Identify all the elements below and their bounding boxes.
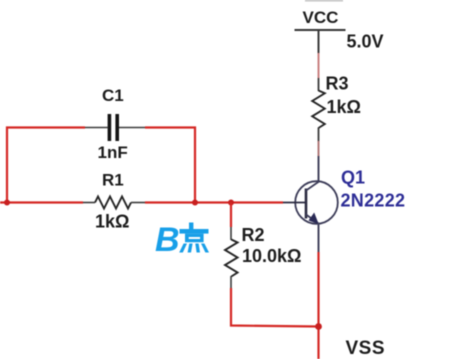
wire bottom rail to Q1 base (red)	[145, 201, 283, 203]
wire collector lead (navy)	[318, 156, 320, 182]
svg-text:VSS: VSS	[346, 338, 386, 359]
junction dot left	[4, 200, 10, 206]
wire bottom rail left (red)	[0, 201, 83, 203]
svg-text:R3: R3	[326, 74, 349, 94]
wire capacitor left lead	[85, 127, 108, 129]
wire R3 to Q1 collector (faded red)	[318, 141, 320, 156]
svg-text:10.0kΩ: 10.0kΩ	[242, 246, 301, 266]
wire emitter to VSS (red)	[317, 252, 319, 359]
R1 value label 1kΩ	[95, 212, 129, 232]
R2 reference label	[242, 225, 265, 245]
capacitor C1	[108, 114, 119, 141]
transistor Q1	[282, 181, 338, 224]
wire R1 right lead	[131, 202, 145, 204]
wire R2 top lead	[230, 227, 232, 240]
wire R1 left lead	[83, 202, 95, 204]
VCC value label 5.0V	[347, 32, 384, 52]
node B (B点)	[155, 221, 209, 259]
wire emitter lead (navy)	[318, 223, 320, 252]
C1 value label 1nF	[98, 143, 128, 162]
svg-text:Q1: Q1	[341, 168, 365, 188]
svg-text:5.0V: 5.0V	[347, 32, 384, 52]
svg-text:VCC: VCC	[303, 8, 339, 27]
svg-text:B: B	[155, 221, 180, 259]
junction dot VSS rail	[315, 323, 322, 330]
svg-text:1nF: 1nF	[98, 143, 128, 162]
wire top loop: right segment (red)	[145, 128, 195, 203]
R2 value label 10.0kΩ	[242, 246, 301, 266]
svg-text:R1: R1	[102, 171, 124, 190]
junction dot loop right	[192, 200, 198, 206]
wire VCC stem (dark)	[318, 30, 320, 53]
C1 reference label	[102, 86, 124, 105]
wire R2 bottom lead	[230, 276, 232, 288]
svg-text:2N2222: 2N2222	[341, 191, 406, 211]
power VCC	[295, 8, 346, 30]
resistor R3	[312, 91, 325, 129]
svg-text:1kΩ: 1kΩ	[95, 212, 129, 232]
svg-text:1kΩ: 1kΩ	[327, 97, 361, 117]
cropped text streak at top edge	[305, 0, 343, 1]
svg-text:R2: R2	[242, 225, 265, 245]
wire VCC to R3 (faded red)	[318, 53, 320, 78]
Q1 reference label	[341, 168, 365, 188]
svg-text:C1: C1	[102, 86, 124, 105]
wire top loop: left segment (red)	[7, 128, 85, 203]
R3 reference label	[326, 74, 349, 94]
wire R2 bottom to VSS rail (red)	[231, 288, 319, 327]
R1 reference label	[102, 171, 124, 190]
resistor R2	[225, 240, 238, 277]
wire capacitor right lead	[119, 127, 145, 129]
wire R3 bottom lead	[318, 128, 320, 142]
wire R3 top lead	[318, 78, 320, 91]
junction dot R2 tap	[228, 200, 234, 206]
resistor R1	[95, 197, 131, 209]
Q1 value label 2N2222	[341, 191, 406, 211]
power VSS label	[346, 338, 386, 359]
wire R2 top (red)	[230, 203, 232, 228]
R3 value label 1kΩ	[327, 97, 361, 117]
